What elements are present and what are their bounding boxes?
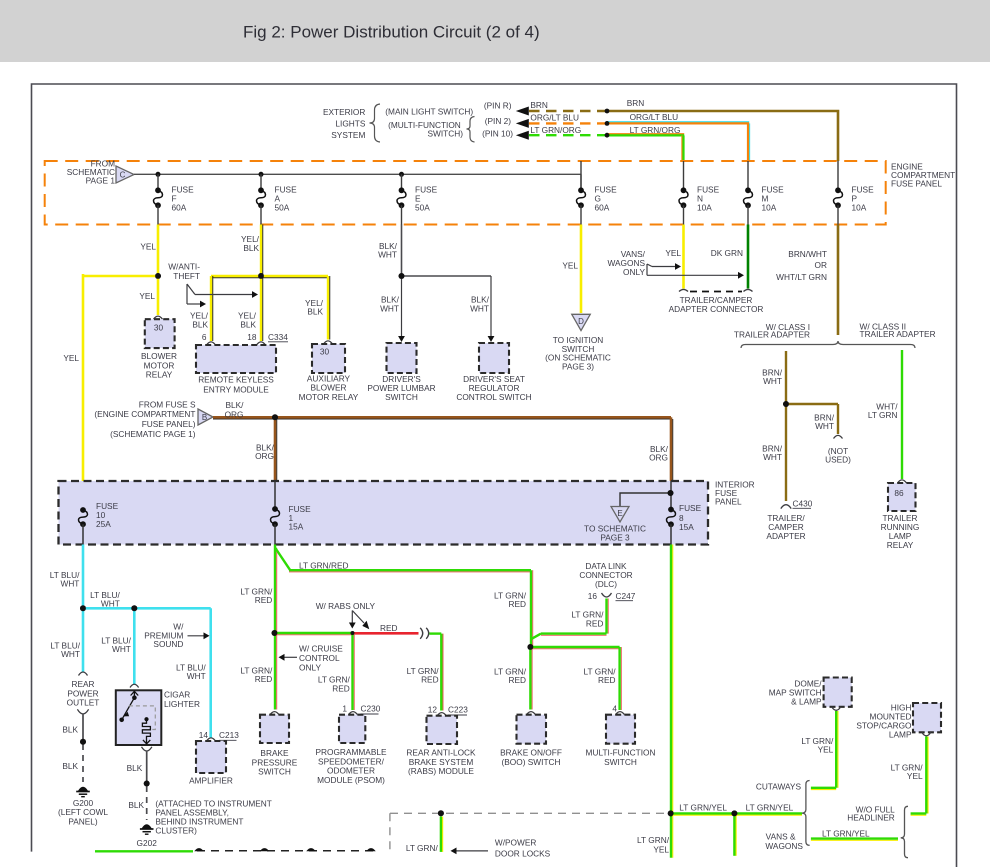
svg-text:MODULE (PSOM): MODULE (PSOM) — [317, 775, 385, 785]
svg-text:(SCHEMATIC PAGE 1): (SCHEMATIC PAGE 1) — [110, 429, 196, 439]
svg-text:W/ RABS ONLY: W/ RABS ONLY — [316, 601, 376, 611]
svg-text:HEADLINER: HEADLINER — [847, 813, 895, 823]
svg-text:C430: C430 — [793, 499, 813, 509]
svg-text:G202: G202 — [137, 838, 158, 848]
svg-text:CONTROL SWITCH: CONTROL SWITCH — [456, 392, 531, 402]
svg-text:60A: 60A — [172, 203, 187, 213]
svg-text:PANEL: PANEL — [715, 497, 742, 507]
svg-text:RED: RED — [421, 675, 439, 685]
svg-text:DOOR LOCKS: DOOR LOCKS — [495, 849, 551, 859]
svg-text:CLUSTER): CLUSTER) — [155, 826, 197, 836]
svg-text:YEL: YEL — [139, 291, 155, 301]
svg-text:ORG/LT BLU: ORG/LT BLU — [530, 112, 579, 122]
svg-text:4: 4 — [612, 704, 617, 714]
svg-text:18: 18 — [247, 332, 257, 342]
svg-text:TRAILER ADAPTER: TRAILER ADAPTER — [860, 329, 936, 339]
svg-text:ADAPTER: ADAPTER — [766, 531, 805, 541]
svg-text:ONLY: ONLY — [299, 663, 321, 673]
svg-text:10A: 10A — [852, 203, 867, 213]
svg-text:WHT: WHT — [378, 250, 397, 260]
svg-text:15A: 15A — [289, 522, 304, 532]
svg-text:RELAY: RELAY — [887, 540, 914, 550]
svg-text:BLK: BLK — [127, 763, 143, 773]
svg-text:YEL: YEL — [562, 261, 578, 271]
svg-text:BLK: BLK — [128, 800, 144, 810]
svg-text:ORG: ORG — [255, 451, 274, 461]
svg-text:15A: 15A — [679, 522, 694, 532]
svg-text:ORG/LT BLU: ORG/LT BLU — [630, 112, 679, 122]
svg-text:WHT: WHT — [763, 452, 782, 462]
svg-text:FUSE PANEL: FUSE PANEL — [891, 179, 942, 189]
svg-text:ADAPTER CONNECTOR: ADAPTER CONNECTOR — [669, 304, 764, 314]
svg-text:30: 30 — [154, 323, 164, 333]
svg-text:(BOO) SWITCH: (BOO) SWITCH — [502, 757, 561, 767]
svg-text:ONLY: ONLY — [623, 267, 645, 277]
svg-text:16: 16 — [588, 591, 598, 601]
svg-text:FUSE PANEL): FUSE PANEL) — [142, 419, 196, 429]
svg-text:DK GRN: DK GRN — [711, 248, 743, 258]
svg-text:REMOTE KEYLESS: REMOTE KEYLESS — [198, 375, 274, 385]
svg-text:EXTERIOR: EXTERIOR — [323, 107, 365, 117]
svg-text:SWITCH: SWITCH — [258, 767, 291, 777]
svg-text:PAGE 1: PAGE 1 — [86, 176, 116, 186]
svg-text:YEL: YEL — [907, 771, 923, 781]
svg-text:WHT: WHT — [763, 376, 782, 386]
svg-text:AMPLIFIER: AMPLIFIER — [189, 776, 233, 786]
svg-text:SYSTEM: SYSTEM — [331, 130, 365, 140]
svg-text:25A: 25A — [96, 519, 111, 529]
svg-text:WHT: WHT — [470, 304, 489, 314]
svg-text:C247: C247 — [616, 591, 636, 601]
svg-text:RED: RED — [508, 599, 526, 609]
svg-text:(PIN R): (PIN R) — [484, 101, 512, 111]
svg-text:ENTRY MODULE: ENTRY MODULE — [203, 384, 269, 394]
svg-text:CONTROL: CONTROL — [299, 653, 340, 663]
svg-text:(RABS) MODULE: (RABS) MODULE — [408, 766, 474, 776]
svg-text:6: 6 — [202, 332, 207, 342]
svg-text:WHT: WHT — [101, 598, 120, 608]
svg-text:12: 12 — [428, 705, 438, 715]
svg-text:LT GRN/RED: LT GRN/RED — [299, 561, 348, 571]
svg-text:USED): USED) — [825, 455, 851, 465]
svg-text:C: C — [120, 171, 126, 180]
svg-text:ORG: ORG — [649, 453, 668, 463]
svg-text:LT GRN/ORG: LT GRN/ORG — [630, 125, 681, 135]
svg-text:WAGONS: WAGONS — [765, 841, 803, 851]
svg-text:WHT: WHT — [380, 304, 399, 314]
svg-text:(PIN 10): (PIN 10) — [482, 128, 513, 138]
svg-text:RED: RED — [255, 674, 273, 684]
svg-text:& LAMP: & LAMP — [791, 697, 822, 707]
svg-text:LT GRN/YEL: LT GRN/YEL — [746, 803, 794, 813]
svg-text:BLK: BLK — [62, 725, 78, 735]
svg-text:THEFT: THEFT — [173, 271, 200, 281]
svg-text:ORG: ORG — [225, 409, 244, 419]
svg-text:LIGHTER: LIGHTER — [164, 699, 200, 709]
svg-text:VANS &: VANS & — [766, 832, 796, 842]
svg-text:WHT: WHT — [60, 579, 79, 589]
svg-text:RELAY: RELAY — [146, 370, 173, 380]
svg-text:WHT/LT GRN: WHT/LT GRN — [776, 272, 827, 282]
svg-text:RED: RED — [586, 619, 604, 629]
svg-text:WHT: WHT — [815, 421, 834, 431]
svg-text:LT GRN: LT GRN — [868, 410, 898, 420]
svg-text:BLK: BLK — [192, 320, 208, 330]
svg-text:Fig 2: Power Distribution Circ: Fig 2: Power Distribution Circuit (2 of … — [243, 23, 540, 42]
svg-text:C223: C223 — [448, 705, 468, 715]
svg-text:(PIN 2): (PIN 2) — [485, 116, 512, 126]
svg-text:PANEL): PANEL) — [68, 816, 98, 826]
svg-text:LT GRN/YEL: LT GRN/YEL — [822, 829, 870, 839]
svg-text:PAGE 3): PAGE 3) — [562, 362, 594, 372]
svg-text:SWITCH: SWITCH — [604, 757, 637, 767]
svg-text:BLK: BLK — [243, 243, 259, 253]
svg-text:LT GRN/ORG: LT GRN/ORG — [530, 125, 581, 135]
svg-text:SWITCH: SWITCH — [385, 392, 418, 402]
svg-text:YEL: YEL — [653, 845, 669, 855]
svg-text:YEL: YEL — [665, 248, 681, 258]
svg-text:1: 1 — [342, 704, 347, 714]
svg-text:WHT: WHT — [187, 671, 206, 681]
svg-text:WHT: WHT — [61, 649, 80, 659]
svg-text:B: B — [202, 413, 207, 422]
svg-text:50A: 50A — [415, 203, 430, 213]
svg-text:D: D — [578, 317, 584, 326]
svg-text:OR: OR — [815, 260, 827, 270]
svg-text:LT GRN/: LT GRN/ — [406, 843, 439, 853]
svg-text:10A: 10A — [697, 203, 712, 213]
svg-text:MOTOR RELAY: MOTOR RELAY — [299, 392, 359, 402]
svg-text:LT GRN/: LT GRN/ — [637, 835, 670, 845]
svg-text:BRN: BRN — [530, 100, 548, 110]
svg-text:FUSE: FUSE — [679, 503, 702, 513]
svg-text:RED: RED — [508, 675, 526, 685]
svg-text:50A: 50A — [275, 203, 290, 213]
svg-text:SOUND: SOUND — [153, 639, 183, 649]
svg-text:WHT: WHT — [112, 644, 131, 654]
svg-text:30: 30 — [320, 347, 330, 357]
svg-text:14: 14 — [199, 730, 209, 740]
svg-text:YEL: YEL — [140, 242, 156, 252]
svg-text:(ENGINE COMPARTMENT: (ENGINE COMPARTMENT — [94, 409, 195, 419]
svg-text:BLK: BLK — [307, 307, 323, 317]
svg-text:SWITCH): SWITCH) — [428, 129, 464, 139]
svg-text:60A: 60A — [595, 203, 610, 213]
svg-text:CUTAWAYS: CUTAWAYS — [756, 782, 802, 792]
svg-text:86: 86 — [894, 488, 904, 498]
svg-text:RED: RED — [380, 623, 398, 633]
svg-text:(MAIN LIGHT SWITCH): (MAIN LIGHT SWITCH) — [385, 106, 473, 116]
svg-text:BLK: BLK — [240, 320, 256, 330]
svg-text:YEL: YEL — [63, 353, 79, 363]
svg-text:(DLC): (DLC) — [595, 579, 617, 589]
svg-text:LIGHTS: LIGHTS — [335, 119, 365, 129]
svg-text:W/POWER: W/POWER — [495, 838, 536, 848]
svg-text:YEL: YEL — [818, 745, 834, 755]
svg-text:C230: C230 — [361, 704, 381, 714]
svg-text:PAGE 3: PAGE 3 — [600, 533, 630, 543]
svg-text:C334: C334 — [268, 332, 288, 342]
svg-text:BRN: BRN — [627, 98, 645, 108]
svg-text:FROM FUSE S: FROM FUSE S — [139, 399, 196, 409]
svg-text:RED: RED — [598, 675, 616, 685]
svg-text:BLK: BLK — [62, 761, 78, 771]
svg-text:LT GRN/YEL: LT GRN/YEL — [679, 803, 727, 813]
svg-text:RED: RED — [332, 684, 350, 694]
svg-text:E: E — [617, 509, 622, 518]
svg-text:W/ CRUISE: W/ CRUISE — [299, 644, 343, 654]
svg-text:C213: C213 — [219, 730, 239, 740]
svg-text:TRAILER ADAPTER: TRAILER ADAPTER — [734, 330, 810, 340]
svg-text:OUTLET: OUTLET — [67, 698, 100, 708]
svg-text:RED: RED — [255, 595, 273, 605]
svg-text:LAMP: LAMP — [889, 730, 912, 740]
svg-text:BRN/WHT: BRN/WHT — [788, 249, 827, 259]
svg-text:10A: 10A — [762, 203, 777, 213]
